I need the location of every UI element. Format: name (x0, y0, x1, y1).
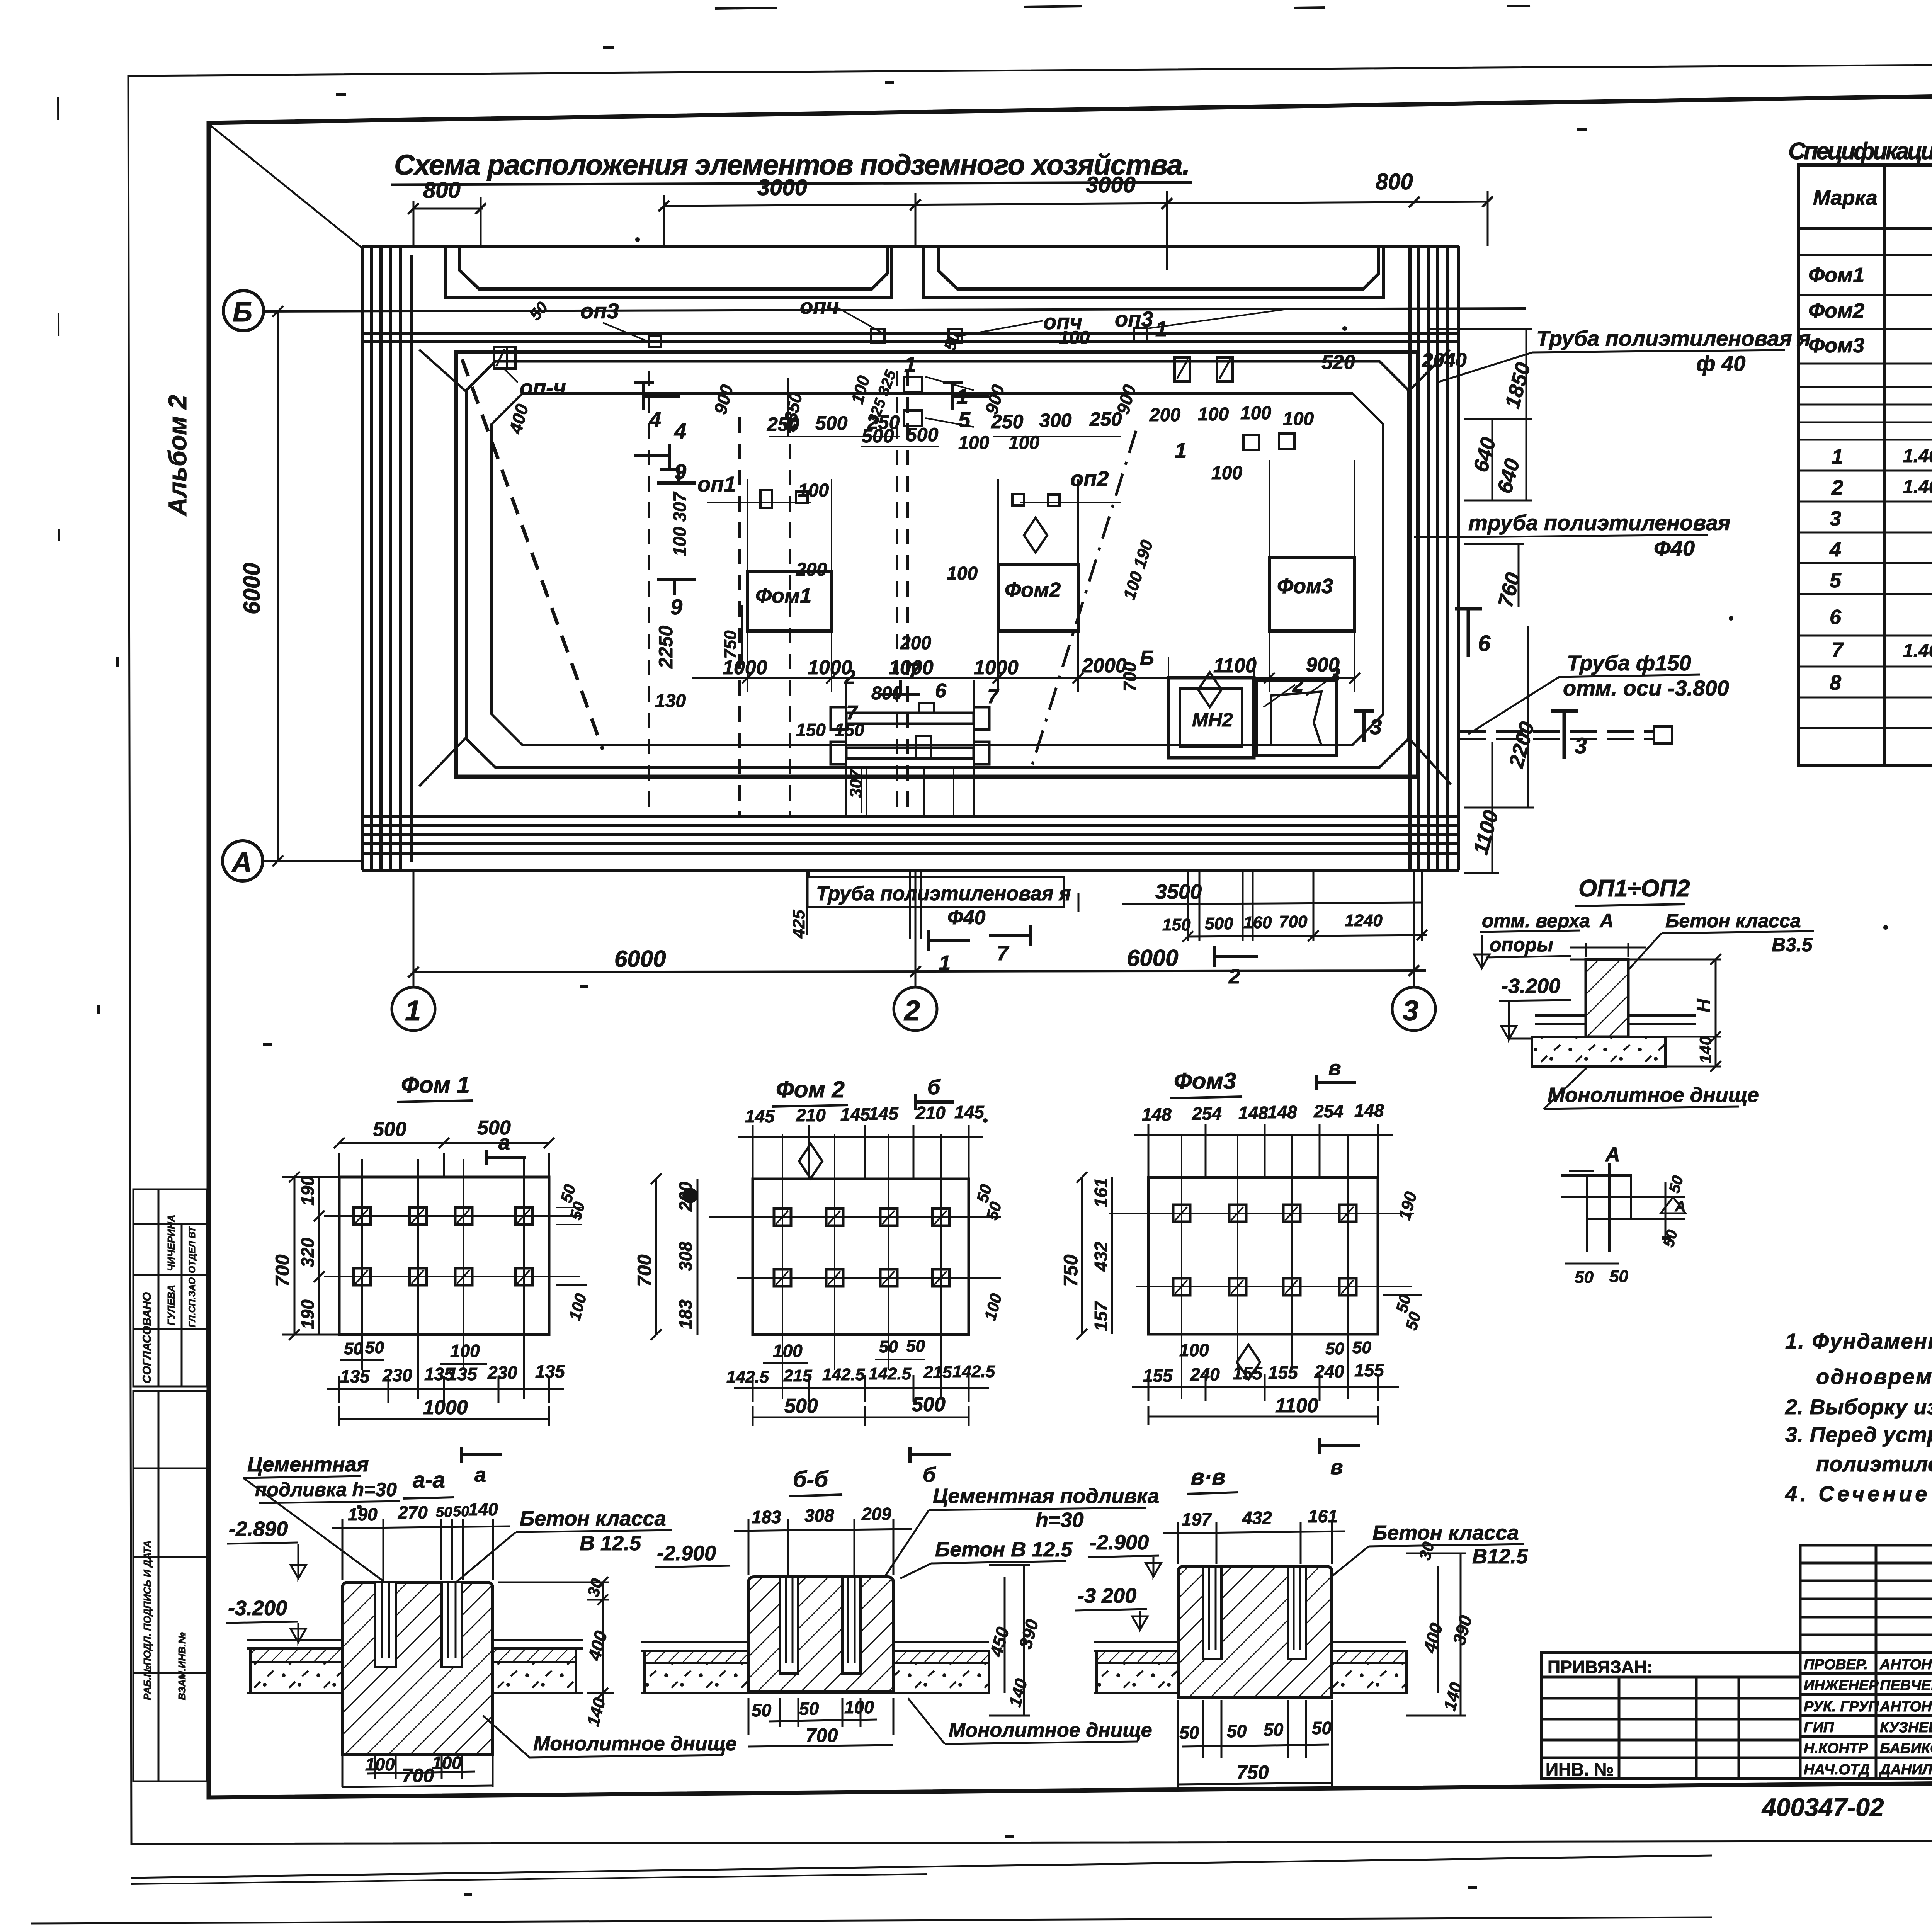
svg-text:4: 4 (649, 407, 661, 432)
svg-text:2: 2 (1228, 965, 1240, 988)
svg-text:1000: 1000 (423, 1396, 468, 1419)
tank wall outer thick rect (456, 352, 1418, 777)
svg-text:140: 140 (468, 1499, 498, 1519)
svg-text:100: 100 (365, 1754, 395, 1774)
svg-text:Фом1: Фом1 (755, 584, 811, 607)
svg-text:700: 700 (806, 1725, 838, 1746)
svg-text:500: 500 (912, 1393, 946, 1416)
svg-text:200: 200 (675, 1182, 696, 1212)
svg-text:425: 425 (789, 910, 808, 939)
svg-text:Ф40: Ф40 (947, 906, 986, 929)
svg-text:Фом 1: Фом 1 (401, 1072, 470, 1098)
svg-text:6000: 6000 (614, 946, 666, 972)
svg-text:142.5: 142.5 (822, 1365, 865, 1384)
svg-text:100: 100 (432, 1753, 462, 1773)
FOM1 DETAIL (272, 1072, 590, 1486)
svg-text:7: 7 (1832, 638, 1844, 662)
svg-text:Фом2: Фом2 (1005, 578, 1061, 602)
svg-text:145: 145 (840, 1104, 871, 1124)
svg-text:ПЕВЧЕВА: ПЕВЧЕВА (1880, 1677, 1932, 1694)
svg-text:5: 5 (958, 407, 971, 432)
svg-text:ОП1÷ОП2: ОП1÷ОП2 (1578, 875, 1690, 902)
svg-text:148: 148 (1267, 1102, 1297, 1122)
right small dims (556, 1207, 587, 1285)
svg-text:Фом1: Фом1 (1808, 264, 1864, 287)
svg-text:148: 148 (1354, 1100, 1384, 1121)
MN2 box nested (1168, 678, 1254, 758)
svg-text:ГИП: ГИП (1804, 1719, 1834, 1736)
flag box right of MN2 (1257, 680, 1337, 755)
svg-text:7: 7 (997, 942, 1010, 965)
svg-text:в: в (1328, 1056, 1341, 1080)
svg-text:197: 197 (1182, 1509, 1212, 1529)
svg-text:3. Перед устройством пола и мо: 3. Перед устройством пола и монолитных ф… (1785, 1422, 1932, 1447)
svg-text:432: 432 (1242, 1508, 1272, 1528)
svg-text:145: 145 (869, 1104, 899, 1124)
svg-text:Н.КОНТР: Н.КОНТР (1804, 1740, 1868, 1757)
stamp tables rotated (133, 1189, 207, 1781)
svg-text:а: а (474, 1463, 486, 1486)
svg-text:МН2: МН2 (1192, 709, 1233, 731)
svg-text:140: 140 (1696, 1036, 1714, 1063)
svg-text:50: 50 (1227, 1721, 1247, 1741)
svg-text:Труба ф150: Труба ф150 (1567, 651, 1691, 675)
svg-text:210: 210 (796, 1105, 826, 1125)
anchor squares (354, 1207, 532, 1285)
svg-text:Цементная подливка: Цементная подливка (933, 1485, 1159, 1508)
svg-text:б: б (923, 1463, 936, 1486)
svg-text:700: 700 (402, 1765, 434, 1786)
svg-text:2: 2 (844, 666, 855, 689)
plan labels with leaders (502, 294, 1340, 731)
svg-text:9: 9 (670, 595, 682, 619)
top dims (1134, 1124, 1393, 1177)
svg-text:308: 308 (675, 1242, 696, 1271)
NOTES (1785, 1329, 1932, 1506)
svg-text:215: 215 (923, 1363, 952, 1382)
svg-text:200: 200 (796, 560, 827, 580)
svg-text:50: 50 (1575, 1268, 1594, 1287)
svg-text:Б: Б (233, 297, 252, 328)
svg-text:50: 50 (453, 1503, 469, 1520)
svg-text:1: 1 (1832, 445, 1843, 468)
svg-text:8: 8 (1830, 671, 1841, 694)
svg-text:100: 100 (1283, 409, 1314, 429)
svg-text:5: 5 (1830, 569, 1842, 592)
LEFT MARGIN (133, 395, 207, 1781)
TOP DIMENSION ROW (408, 191, 1493, 270)
svg-text:4: 4 (1829, 538, 1841, 561)
svg-text:-3 200: -3 200 (1077, 1584, 1136, 1607)
svg-text:оп3: оп3 (1115, 307, 1153, 331)
svg-text:155: 155 (1233, 1363, 1263, 1383)
svg-text:опч: опч (1043, 310, 1082, 334)
top dims (334, 1138, 554, 1177)
svg-text:800: 800 (423, 178, 461, 203)
svg-text:100: 100 (1240, 403, 1271, 423)
main block (748, 1577, 893, 1692)
svg-text:135: 135 (340, 1366, 370, 1386)
centerlines (324, 1159, 580, 1399)
svg-text:190: 190 (298, 1299, 318, 1329)
svg-text:Монолитное днище: Монолитное днище (533, 1733, 737, 1755)
svg-text:2: 2 (1831, 476, 1843, 499)
floor slabs (641, 1642, 989, 1693)
privyazan table (1541, 1653, 1800, 1779)
svg-text:400347-02: 400347-02 (1761, 1793, 1884, 1821)
svg-text:155: 155 (1143, 1366, 1173, 1386)
top horizontals (362, 246, 1459, 342)
svg-text:ИНВ. №: ИНВ. № (1546, 1759, 1614, 1779)
svg-text:в: в (1330, 1456, 1343, 1479)
svg-text:240: 240 (1190, 1364, 1220, 1384)
svg-text:100: 100 (1179, 1340, 1209, 1360)
svg-text:Фом3: Фом3 (1174, 1068, 1236, 1094)
svg-text:Фом 2: Фом 2 (776, 1077, 845, 1102)
svg-text:500: 500 (906, 424, 939, 446)
corner chamfer ticks (419, 350, 1451, 786)
svg-text:3000: 3000 (757, 175, 807, 200)
svg-text:БАБИКОВА: БАБИКОВА (1880, 1740, 1932, 1757)
svg-text:230: 230 (487, 1362, 517, 1383)
svg-text:50: 50 (344, 1339, 363, 1358)
left dims (1077, 1172, 1112, 1340)
svg-text:6: 6 (1478, 631, 1491, 656)
svg-text:209: 209 (861, 1504, 891, 1524)
svg-text:700: 700 (1279, 912, 1308, 931)
roof hatch opening 1 (445, 246, 892, 298)
svg-text:50: 50 (752, 1700, 772, 1720)
svg-text:750: 750 (1060, 1254, 1082, 1287)
svg-text:-2.900: -2.900 (1090, 1531, 1149, 1554)
svg-text:Б: Б (1140, 647, 1154, 669)
svg-text:А: А (1675, 1199, 1685, 1215)
svg-text:-3.200: -3.200 (228, 1597, 287, 1620)
svg-text:ГУЛЕВА: ГУЛЕВА (165, 1285, 177, 1325)
svg-text:100: 100 (773, 1341, 803, 1361)
svg-text:50: 50 (879, 1337, 898, 1356)
left dims (282, 1172, 344, 1340)
roof hatch opening 2 (923, 246, 1383, 298)
svg-text:Фом3: Фом3 (1277, 575, 1333, 598)
svg-text:-3.200: -3.200 (1501, 975, 1560, 998)
svg-text:700: 700 (272, 1254, 293, 1287)
svg-text:РУК. ГРУП: РУК. ГРУП (1804, 1699, 1879, 1715)
svg-text:183: 183 (675, 1299, 696, 1329)
svg-text:РАБ.№ПОДЛ. ПОДПИСЬ И ДАТА: РАБ.№ПОДЛ. ПОДПИСЬ И ДАТА (141, 1541, 153, 1700)
outer wall line bundle: left verticals (362, 246, 411, 870)
diamond A (799, 1144, 822, 1179)
svg-text:308: 308 (804, 1505, 834, 1526)
svg-text:500: 500 (784, 1395, 818, 1417)
svg-text:ГЛ.СП.ЗАО: ГЛ.СП.ЗАО (187, 1277, 197, 1327)
foundation FOM1 (747, 571, 832, 631)
svg-text:500: 500 (862, 425, 894, 447)
svg-text:Н: Н (1694, 998, 1714, 1012)
svg-text:150: 150 (796, 720, 826, 740)
svg-text:142.5: 142.5 (869, 1364, 912, 1383)
svg-text:100: 100 (798, 480, 829, 501)
svg-text:1100: 1100 (1213, 655, 1257, 677)
svg-text:2: 2 (903, 995, 920, 1027)
svg-text:6000: 6000 (239, 563, 265, 614)
svg-text:157: 157 (1091, 1301, 1111, 1331)
svg-text:-2.890: -2.890 (229, 1517, 288, 1541)
svg-text:1000: 1000 (723, 656, 767, 679)
channel assembly item 7/6 (831, 707, 989, 764)
svg-text:50: 50 (1312, 1718, 1332, 1738)
LEFT 6000 dim (272, 306, 283, 866)
bottom dims (1178, 1700, 1332, 1789)
svg-text:500: 500 (815, 412, 848, 434)
svg-text:1100: 1100 (1275, 1395, 1318, 1417)
svg-text:100 307: 100 307 (670, 491, 690, 556)
main hatched block (342, 1582, 493, 1754)
svg-text:50: 50 (1325, 1339, 1344, 1358)
SPEC TABLE (1799, 165, 1932, 765)
svg-text:h=30: h=30 (1036, 1509, 1084, 1532)
dash-dot diagonal (1030, 431, 1136, 773)
svg-text:б: б (927, 1076, 941, 1099)
a mark above (486, 1150, 526, 1165)
svg-text:ИНЖЕНЕР: ИНЖЕНЕР (1804, 1677, 1879, 1694)
svg-text:1: 1 (1175, 438, 1187, 463)
main block (1178, 1566, 1332, 1697)
svg-text:135: 135 (447, 1364, 478, 1384)
svg-text:Бетон класса: Бетон класса (520, 1507, 666, 1530)
svg-text:6: 6 (1830, 605, 1842, 629)
svg-text:190: 190 (298, 1176, 318, 1206)
svg-text:2250: 2250 (655, 626, 677, 669)
svg-text:142.5: 142.5 (952, 1362, 995, 1381)
svg-text:190: 190 (348, 1504, 378, 1524)
svg-text:200: 200 (1149, 405, 1180, 425)
right dims (498, 1577, 614, 1708)
svg-text:50: 50 (906, 1337, 925, 1355)
svg-text:оп2: оп2 (1070, 466, 1109, 491)
svg-text:50: 50 (365, 1338, 384, 1357)
svg-text:50: 50 (799, 1699, 819, 1719)
floor slabs (1094, 1642, 1406, 1693)
svg-text:3000: 3000 (1086, 172, 1136, 197)
svg-text:3: 3 (1830, 507, 1841, 530)
svg-text:Бетон класса: Бетон класса (1372, 1521, 1519, 1544)
svg-text:ВЗАМ.ИНВ.№: ВЗАМ.ИНВ.№ (176, 1632, 188, 1700)
svg-text:50: 50 (1352, 1338, 1371, 1357)
right dims (1406, 1553, 1466, 1716)
FOM3 DETAIL (1060, 1056, 1424, 1479)
svg-text:б-б: б-б (793, 1467, 829, 1492)
svg-text:270: 270 (398, 1502, 428, 1522)
svg-text:50: 50 (436, 1504, 452, 1520)
PLAN VIEW (362, 246, 1459, 870)
svg-text:148: 148 (1238, 1103, 1268, 1123)
SECTION A-A (226, 1453, 737, 1787)
svg-text:труба полиэтиленовая: труба полиэтиленовая (1468, 510, 1731, 535)
svg-text:130: 130 (655, 691, 686, 711)
svg-text:оп1: оп1 (697, 472, 736, 496)
svg-text:700: 700 (634, 1254, 655, 1287)
svg-text:6: 6 (935, 680, 947, 702)
svg-text:800: 800 (1376, 169, 1413, 194)
svg-text:307: 307 (847, 769, 866, 798)
svg-text:ПРОВЕР.: ПРОВЕР. (1804, 1656, 1868, 1673)
svg-text:Монолитное днище: Монолитное днище (949, 1719, 1152, 1742)
svg-text:100: 100 (450, 1341, 480, 1361)
svg-text:2. Выборку изделия закладного: 2. Выборку изделия закладного МН2 см. сп… (1785, 1395, 1932, 1419)
svg-text:320: 320 (298, 1238, 318, 1267)
svg-text:148: 148 (1142, 1104, 1172, 1124)
svg-text:100: 100 (958, 433, 989, 453)
svg-text:3: 3 (1403, 995, 1418, 1027)
svg-text:полиэтиленовые трубы по чертеж: полиэтиленовые трубы по чертежам марки Э… (1816, 1452, 1932, 1476)
bottom horizontals (362, 816, 1459, 870)
a mark below (462, 1447, 502, 1463)
bottom area under plan (808, 870, 1427, 988)
OP1-OP2 DETAIL (1474, 875, 1814, 1109)
BOTTOM AXIS DIMS (408, 965, 1426, 978)
top dims (734, 1519, 912, 1575)
top dims (1163, 1522, 1345, 1564)
left dims (651, 1173, 697, 1340)
svg-text:142.5: 142.5 (726, 1367, 769, 1386)
svg-text:161: 161 (1308, 1506, 1338, 1526)
svg-text:отм. оси -3.800: отм. оси -3.800 (1563, 676, 1729, 700)
svg-text:А: А (1599, 910, 1614, 932)
svg-text:135: 135 (535, 1361, 565, 1381)
dashed verticals (649, 371, 908, 815)
svg-text:а: а (498, 1131, 510, 1154)
SPEC TITLE (1788, 138, 1932, 165)
svg-text:Труба полиэтиленовая я: Труба полиэтиленовая я (816, 883, 1071, 905)
RIGHT DIM COLUMN (1430, 329, 1539, 873)
right dims (989, 1565, 1030, 1716)
top width dim (1585, 943, 1587, 957)
T-marks right (1455, 609, 1578, 759)
svg-text:оп3: оп3 (580, 299, 619, 323)
svg-text:Бетон класса: Бетон класса (1665, 910, 1801, 932)
svg-text:161: 161 (1091, 1178, 1111, 1207)
svg-text:А: А (231, 847, 252, 878)
svg-text:432: 432 (1091, 1242, 1111, 1272)
svg-text:100: 100 (947, 563, 978, 584)
svg-text:1. Фундаменты под оборудование: 1. Фундаменты под оборудование ФОМ1÷ФОМ3… (1785, 1329, 1932, 1353)
side slabs (1532, 1015, 1696, 1066)
svg-text:Альбом 2: Альбом 2 (163, 395, 192, 517)
svg-text:1.400-15.В1.150-08: 1.400-15.В1.150-08 (1903, 477, 1932, 497)
tank wall inner rect with chamfers (466, 361, 1408, 767)
SECTION B-B (641, 1467, 1161, 1747)
svg-text:1240: 1240 (1345, 911, 1383, 930)
svg-text:183: 183 (752, 1507, 781, 1527)
svg-text:Марка: Марка (1813, 186, 1878, 209)
PLAN INTERIOR (494, 328, 1355, 764)
long dashed diagonal ramp (462, 359, 603, 750)
svg-text:ф 40: ф 40 (1696, 351, 1745, 376)
names table (1800, 1653, 1932, 1779)
svg-text:700: 700 (1120, 662, 1140, 692)
svg-text:а-а: а-а (413, 1468, 445, 1493)
svg-text:230: 230 (382, 1365, 412, 1385)
svg-text:155: 155 (1268, 1362, 1298, 1383)
svg-text:300: 300 (1039, 410, 1072, 431)
svg-text:50: 50 (1264, 1719, 1284, 1740)
bolt channels (375, 1582, 462, 1667)
svg-text:3: 3 (1370, 714, 1382, 739)
svg-text:1: 1 (939, 951, 951, 975)
hatch fills on tall plates (1177, 359, 1188, 379)
svg-text:254: 254 (1313, 1101, 1344, 1121)
svg-text:КУЗНЕЦОВ: КУЗНЕЦОВ (1880, 1719, 1932, 1736)
svg-text:145: 145 (954, 1102, 985, 1122)
svg-text:1000: 1000 (974, 656, 1019, 679)
column hatched (1586, 959, 1628, 1037)
MAIN TITLE (391, 149, 1192, 185)
svg-text:АНТОНОВА: АНТОНОВА (1879, 1656, 1932, 1673)
svg-text:1: 1 (1155, 316, 1167, 341)
svg-text:200: 200 (900, 633, 931, 653)
svg-text:в·в: в·в (1191, 1464, 1225, 1490)
svg-text:160: 160 (1243, 913, 1272, 932)
diamond symbols (1024, 518, 1221, 707)
svg-text:подливка h=30: подливка h=30 (255, 1479, 397, 1500)
top dim row (332, 1519, 510, 1580)
svg-text:4: 4 (674, 419, 686, 443)
svg-text:254: 254 (1192, 1104, 1222, 1124)
svg-text:НАЧ.ОТД: НАЧ.ОТД (1804, 1762, 1870, 1778)
svg-text:Фом3: Фом3 (1808, 334, 1864, 357)
svg-text:2040: 2040 (1422, 349, 1467, 372)
svg-text:Фом2: Фом2 (1808, 299, 1864, 322)
svg-text:9: 9 (674, 459, 686, 484)
floor edge rect with chamfers (492, 393, 1383, 745)
svg-text:1: 1 (904, 352, 916, 376)
foundation FOM3 (1269, 558, 1355, 631)
H dim right (1665, 954, 1721, 1072)
svg-text:100: 100 (1211, 463, 1242, 483)
svg-text:50: 50 (1609, 1267, 1628, 1286)
section marks inside plan (634, 383, 1374, 742)
svg-text:Монолитное днище: Монолитное днище (1548, 1083, 1759, 1107)
svg-text:50: 50 (1179, 1723, 1199, 1743)
RIGHT CALLOUTS (1414, 326, 1811, 759)
svg-text:210: 210 (915, 1103, 946, 1123)
svg-text:100: 100 (1198, 404, 1229, 425)
svg-text:520: 520 (1321, 351, 1355, 374)
bottom dims (748, 1698, 893, 1747)
TITLE BLOCK (1541, 1545, 1932, 1821)
plan interior dimension chains (692, 378, 1360, 939)
right verticals (1410, 246, 1459, 870)
svg-text:В3.5: В3.5 (1772, 934, 1813, 956)
left floor slabs (247, 1640, 583, 1693)
svg-text:3: 3 (1575, 733, 1587, 759)
bottom dims (342, 1756, 493, 1787)
AXES (223, 201, 1526, 1031)
svg-text:7: 7 (846, 702, 858, 724)
svg-text:ЧИЧЕРИНА: ЧИЧЕРИНА (165, 1215, 177, 1271)
svg-text:ПРИВЯЗАН:: ПРИВЯЗАН: (1548, 1657, 1653, 1677)
top dims (738, 1125, 983, 1179)
svg-text:7: 7 (987, 685, 999, 708)
svg-text:7: 7 (908, 658, 921, 683)
svg-text:Цементная: Цементная (247, 1453, 369, 1476)
svg-text:оп-ч: оп-ч (520, 375, 566, 400)
svg-text:СОГЛАСОВАНО: СОГЛАСОВАНО (141, 1292, 153, 1383)
svg-text:Спецификация к схеме расположе: Спецификация к схеме расположения элемен… (1788, 138, 1932, 165)
svg-text:750: 750 (1236, 1762, 1269, 1783)
svg-text:Труба полиэтиленовая я: Труба полиэтиленовая я (1536, 326, 1811, 350)
